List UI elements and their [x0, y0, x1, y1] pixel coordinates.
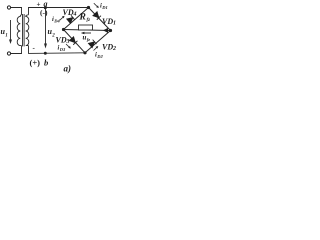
diode VD2	[88, 40, 96, 48]
svg-text:D2: D2	[96, 54, 103, 59]
svg-text:b: b	[44, 58, 48, 68]
wire primary bottom lead	[11, 46, 22, 54]
terminal bottom-left	[7, 52, 10, 55]
svg-text:D3: D3	[59, 47, 66, 52]
background	[0, 0, 119, 74]
svg-text:VD: VD	[56, 36, 67, 45]
svg-text:VD: VD	[102, 43, 113, 52]
resistor R_fz load box	[79, 25, 93, 30]
junction dot at a tap	[44, 6, 47, 9]
svg-text:VD: VD	[102, 17, 113, 26]
diode VD4	[67, 15, 75, 23]
diode VD1	[93, 12, 101, 20]
diode VD3	[69, 37, 77, 45]
node top vertex (a side)	[87, 6, 90, 9]
svg-text:(-): (-)	[40, 8, 48, 17]
bridge side VD1 wire (top vertex to right vertex)	[89, 8, 111, 31]
arrow i_D2	[94, 46, 99, 51]
arrow i_D4	[60, 16, 65, 20]
transformer T secondary winding	[26, 15, 29, 46]
bridge side VD2 wire (bottom vertex to right vertex)	[85, 31, 111, 53]
terminal top-left	[7, 6, 10, 9]
svg-text:1: 1	[5, 34, 8, 39]
node left vertex	[62, 28, 65, 31]
svg-text:D1: D1	[101, 5, 108, 10]
svg-text:4: 4	[73, 12, 77, 18]
arrow i_D3	[66, 44, 71, 49]
wire load diagonal	[64, 30, 111, 31]
junction dot at b tap	[44, 52, 47, 55]
wire secondary bottom lead to node b	[29, 46, 86, 54]
arrow i_fz on load wire	[103, 28, 108, 33]
node bottom vertex (b side)	[83, 51, 86, 54]
transformer T primary winding	[17, 15, 21, 46]
arrow i_D1	[94, 3, 99, 8]
arrow u_fz	[81, 32, 91, 34]
svg-text:a): a)	[64, 64, 72, 74]
wire secondary top lead to node a	[29, 8, 89, 15]
bridge side VD4 wire (left vertex to top vertex)	[64, 8, 89, 30]
svg-text:2: 2	[112, 46, 116, 52]
svg-text:fz: fz	[87, 18, 91, 23]
wire primary top lead	[11, 8, 22, 15]
svg-text:1: 1	[113, 21, 116, 27]
svg-text:fz: fz	[87, 37, 90, 42]
arrow u1 voltage	[9, 20, 12, 44]
transformer core	[22, 14, 24, 46]
arrow u2 voltage	[44, 9, 47, 49]
svg-text:D4: D4	[53, 19, 60, 24]
node right vertex	[109, 29, 112, 32]
svg-text:R: R	[79, 13, 86, 23]
bridge side VD3 wire (left vertex to bottom vertex)	[64, 30, 86, 53]
svg-text:VD: VD	[63, 8, 74, 17]
svg-text:(+): (+)	[30, 58, 41, 68]
